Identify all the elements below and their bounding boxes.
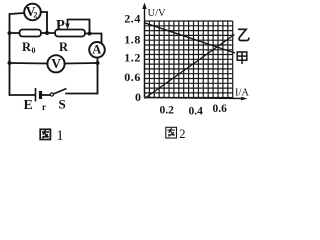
line 甲 descending bbox=[145, 23, 236, 53]
svg-text:P: P bbox=[56, 18, 65, 34]
wire main row: R to ammeter bend bbox=[85, 34, 102, 44]
wire top-left horizontal to V2 bbox=[10, 13, 25, 14]
svg-text:r: r bbox=[42, 102, 46, 112]
svg-text:0.6: 0.6 bbox=[124, 70, 141, 84]
label 乙 bbox=[238, 29, 249, 40]
svg-text:1.2: 1.2 bbox=[124, 51, 141, 65]
wire middle branch right bbox=[64, 62, 98, 65]
resistor R0 bbox=[20, 30, 42, 56]
caption 图2 bbox=[166, 127, 177, 138]
wire main row: left edge to R0 bbox=[10, 32, 20, 34]
slider arrow P bbox=[56, 18, 70, 34]
svg-text:I/A: I/A bbox=[235, 88, 249, 99]
svg-text:0: 0 bbox=[135, 90, 141, 104]
grid bbox=[145, 21, 233, 98]
svg-text:2: 2 bbox=[33, 10, 37, 19]
line 乙 ascending bbox=[145, 35, 235, 99]
label 甲 bbox=[237, 52, 247, 64]
wire left vertical bbox=[9, 14, 11, 95]
ammeter A bbox=[89, 42, 105, 58]
node: left edge / R0 row junction bbox=[8, 31, 12, 35]
svg-text:0: 0 bbox=[32, 46, 36, 55]
node: V2 tap between R0 and R bbox=[45, 31, 49, 35]
svg-text:S: S bbox=[59, 97, 66, 112]
wire switch to bottom-right corner bbox=[66, 93, 98, 95]
switch S bbox=[50, 89, 66, 112]
battery E r bbox=[24, 88, 47, 113]
x axis I/A bbox=[145, 88, 250, 101]
caption 图1 bbox=[40, 129, 50, 139]
node: rheostat slider tie junction bbox=[88, 32, 92, 36]
wire right vertical below ammeter bbox=[97, 58, 99, 94]
wire middle branch left bbox=[10, 62, 48, 65]
svg-text:U/V: U/V bbox=[148, 8, 167, 19]
wire main row: R0 to R bbox=[41, 32, 55, 34]
svg-text:A: A bbox=[92, 43, 101, 57]
svg-text:R: R bbox=[59, 40, 69, 54]
voltmeter V2 bbox=[24, 4, 41, 21]
svg-text:1: 1 bbox=[56, 128, 64, 143]
wire V2 right to junction drop bbox=[41, 12, 47, 33]
rheostat R bbox=[55, 30, 85, 55]
svg-text:V: V bbox=[51, 56, 61, 71]
svg-text:R: R bbox=[22, 40, 32, 54]
wire slider to right end of R bbox=[68, 20, 90, 34]
svg-text:0.6: 0.6 bbox=[213, 103, 228, 115]
svg-text:0.2: 0.2 bbox=[160, 105, 175, 117]
voltmeter V bbox=[47, 55, 64, 72]
svg-text:0.4: 0.4 bbox=[189, 106, 204, 118]
wire bottom left to battery bbox=[10, 94, 36, 96]
node: left edge / voltmeter branch junction bbox=[8, 61, 12, 65]
svg-text:E: E bbox=[24, 98, 33, 113]
node: right edge / voltmeter branch junction bbox=[96, 61, 100, 65]
y axis U/V bbox=[142, 3, 166, 98]
svg-text:2.4: 2.4 bbox=[124, 12, 141, 26]
svg-text:1.8: 1.8 bbox=[124, 33, 141, 47]
wire battery to switch bbox=[42, 94, 50, 96]
svg-text:2: 2 bbox=[179, 127, 185, 141]
